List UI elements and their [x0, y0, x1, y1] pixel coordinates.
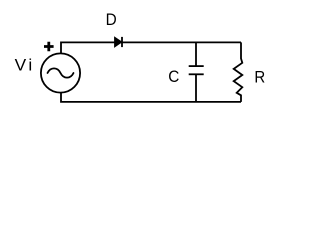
resistor R: zigzag with leads	[234, 42, 243, 102]
diode D: cathode bar	[121, 37, 123, 47]
capacitor C: top plate	[189, 65, 204, 67]
capacitor C: bottom plate	[189, 73, 204, 75]
capacitor C: top lead	[195, 42, 197, 66]
capacitor C: bottom lead	[195, 74, 197, 102]
diode D: anode triangle	[115, 38, 122, 47]
svg-text:D: D	[106, 12, 117, 30]
wire: bottom rail from source to right branch	[61, 93, 241, 102]
AC source Vi: circle	[41, 53, 80, 92]
AC source Vi: sine wave	[48, 68, 74, 77]
AC source polarity plus sign	[44, 42, 54, 52]
svg-text:C: C	[168, 68, 179, 86]
wire: top rail from source to right branch	[61, 42, 241, 53]
svg-text:Vi: Vi	[15, 56, 35, 75]
svg-text:R: R	[254, 69, 265, 87]
